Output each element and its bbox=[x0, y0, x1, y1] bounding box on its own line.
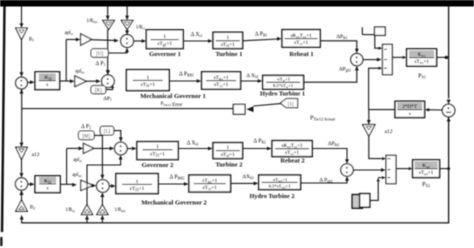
svg-text:a12: a12 bbox=[31, 152, 39, 158]
svg-text:sTt1+1: sTt1+1 bbox=[221, 43, 235, 48]
svg-text:[U]: [U] bbox=[96, 52, 103, 57]
svg-text:Mechanical Governor 1: Mechanical Governor 1 bbox=[140, 93, 206, 100]
svg-text:1/Rth2: 1/Rth2 bbox=[114, 208, 126, 213]
svg-text:s: s bbox=[47, 186, 49, 192]
svg-text:s: s bbox=[46, 82, 48, 88]
svg-text:[1]: [1] bbox=[288, 103, 294, 108]
svg-text:sTt2+1: sTt2+1 bbox=[221, 153, 235, 158]
svg-text:Reheat 2: Reheat 2 bbox=[280, 158, 304, 165]
svg-text:Turbine 1: Turbine 1 bbox=[215, 51, 242, 58]
svg-text:Governor 1: Governor 1 bbox=[149, 51, 181, 58]
svg-text:PS2: PS2 bbox=[422, 181, 430, 188]
svg-text:B2: B2 bbox=[30, 206, 35, 211]
svg-text:[M]: [M] bbox=[82, 134, 90, 139]
svg-text:Governor 2: Governor 2 bbox=[142, 162, 174, 169]
svg-text:Reheat 1: Reheat 1 bbox=[289, 51, 313, 58]
svg-text:sTP1+1: sTP1+1 bbox=[414, 60, 429, 65]
svg-text:1/Rt2: 1/Rt2 bbox=[65, 208, 75, 213]
svg-text:apft2: apft2 bbox=[73, 158, 82, 163]
svg-text:sT22+1: sT22+1 bbox=[203, 186, 218, 191]
svg-text:Turbine 2: Turbine 2 bbox=[215, 162, 242, 169]
svg-text:PS1: PS1 bbox=[418, 73, 426, 80]
svg-text:Hydro Turbine 1: Hydro Turbine 1 bbox=[260, 91, 305, 98]
svg-text:sTr2+1: sTr2+1 bbox=[285, 151, 299, 156]
svg-text:a12: a12 bbox=[384, 129, 392, 135]
svg-text:apfh2: apfh2 bbox=[72, 173, 82, 178]
svg-text:B1: B1 bbox=[29, 38, 34, 43]
svg-text:sTr1+1: sTr1+1 bbox=[294, 41, 308, 46]
svg-text:apft1: apft1 bbox=[65, 31, 74, 36]
svg-text:[K]: [K] bbox=[95, 89, 102, 94]
svg-text:1/Rt1: 1/Rt1 bbox=[136, 26, 146, 31]
svg-text:s: s bbox=[409, 112, 411, 117]
svg-text:1/Rth1: 1/Rth1 bbox=[86, 19, 98, 24]
svg-text:sT12+1: sT12+1 bbox=[214, 83, 229, 88]
svg-text:Mechanical Governor 2: Mechanical Governor 2 bbox=[141, 200, 207, 207]
svg-text:Hydro Turbine 2: Hydro Turbine 2 bbox=[249, 193, 294, 200]
svg-text:[L]: [L] bbox=[104, 130, 111, 135]
svg-text:sTp2+1: sTp2+1 bbox=[419, 171, 434, 176]
svg-text:apfh1: apfh1 bbox=[75, 70, 85, 75]
